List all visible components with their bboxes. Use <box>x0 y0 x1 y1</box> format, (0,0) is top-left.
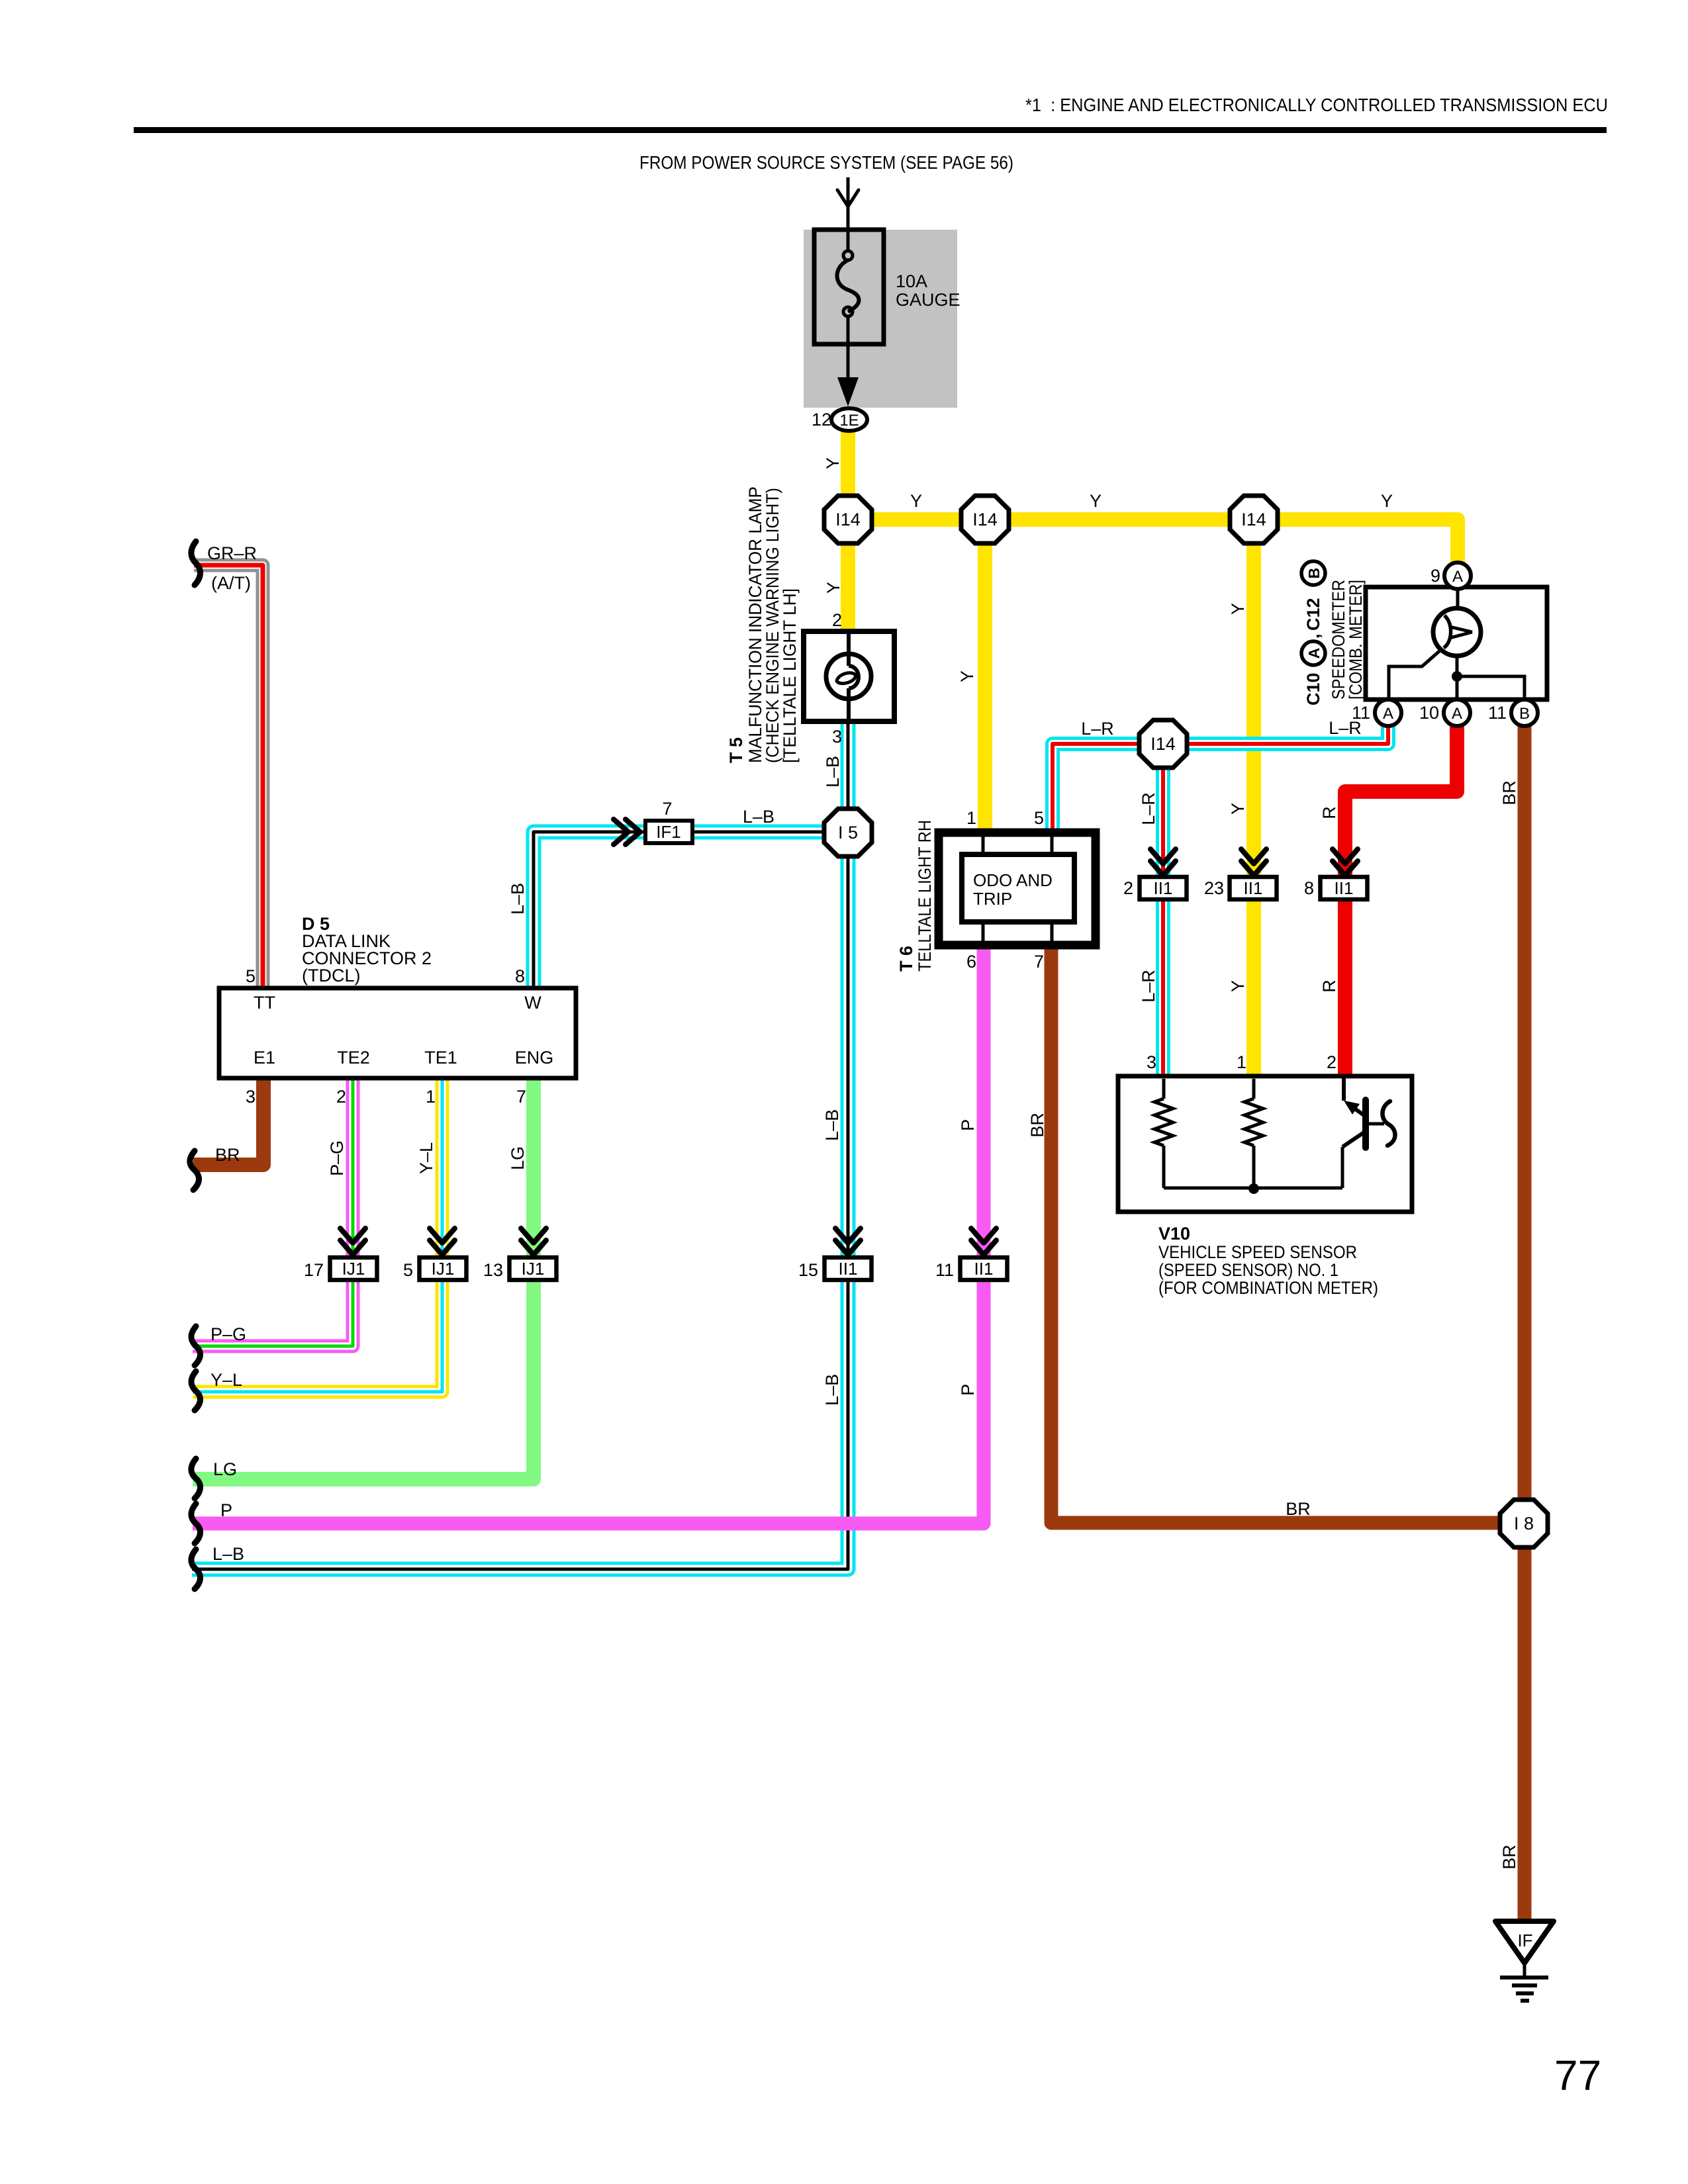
header rule <box>134 127 1607 133</box>
svg-text:A: A <box>1305 648 1323 659</box>
svg-text:[TELLTALE LIGHT LH]: [TELLTALE LIGHT LH] <box>780 588 800 763</box>
svg-text:L–B: L–B <box>508 883 528 915</box>
svg-text:II1: II1 <box>1154 878 1173 898</box>
svg-text:P–G: P–G <box>327 1140 347 1176</box>
svg-text:TRIP: TRIP <box>973 889 1012 909</box>
svg-text:10: 10 <box>1419 703 1439 723</box>
svg-text:5: 5 <box>403 1260 413 1280</box>
junction chevron II1-15 <box>835 1228 861 1243</box>
wire BR from speedometer pin B11 through I8 to ground IF <box>1518 721 1532 1923</box>
component speedometer comb meter box <box>1366 587 1547 700</box>
svg-text:1: 1 <box>426 1087 436 1107</box>
svg-text:Y: Y <box>1381 491 1393 511</box>
junction chevron IJ1-17 <box>340 1228 365 1243</box>
svg-text:I14: I14 <box>835 510 861 529</box>
svg-text:FROM POWER SOURCE SYSTEM (SEE: FROM POWER SOURCE SYSTEM (SEE PAGE 56) <box>639 152 1013 173</box>
brace LG <box>191 1459 201 1498</box>
component V10 vehicle speed sensor box <box>1118 1076 1412 1212</box>
fuse block shading <box>804 230 957 408</box>
svg-text:B: B <box>1305 568 1323 579</box>
svg-text:A: A <box>1383 705 1393 723</box>
svg-text:7: 7 <box>662 799 672 819</box>
resistor R1 <box>1154 1099 1173 1146</box>
svg-text:R: R <box>1319 979 1339 993</box>
wire BR from D5 pin E1 <box>193 1078 263 1165</box>
svg-text:I14: I14 <box>972 510 998 529</box>
wire Y branch I14 to T6 pin1 <box>978 520 992 833</box>
connector IF1 pin7 <box>645 821 692 843</box>
svg-text:A: A <box>1452 705 1462 723</box>
junction chevron II1-2 <box>1150 849 1176 864</box>
component T6 telltale light RH box <box>939 833 1096 945</box>
svg-text:Y: Y <box>1090 491 1102 511</box>
svg-text:II1: II1 <box>1244 878 1263 898</box>
svg-text:I 8: I 8 <box>1514 1514 1534 1533</box>
svg-text:GAUGE: GAUGE <box>896 290 961 310</box>
svg-text:3: 3 <box>1147 1052 1156 1072</box>
svg-text:1: 1 <box>966 808 976 828</box>
connector II1 pin23 <box>1230 877 1277 899</box>
svg-text:R: R <box>1319 806 1339 819</box>
wire L-R from T6 pin5 through I14 to speedometer pin A11 <box>1053 721 1388 835</box>
wire L-B from T5 pin3 through I5 and II1-15 to lower-left <box>192 719 848 1569</box>
svg-text:B: B <box>1519 705 1530 723</box>
svg-text:P: P <box>958 1384 978 1396</box>
transistor Q1 <box>1342 1076 1346 1101</box>
brace BR left <box>190 1151 199 1190</box>
svg-text:I14: I14 <box>1150 734 1176 754</box>
svg-text:3: 3 <box>246 1087 256 1107</box>
svg-text:23: 23 <box>1204 878 1224 898</box>
wire Y-L from D5 pin TE1 to IJ1-5 <box>193 1078 442 1392</box>
svg-text:IJ1: IJ1 <box>432 1259 455 1279</box>
svg-text:TE1: TE1 <box>424 1048 457 1068</box>
svg-text:10A: 10A <box>896 271 927 291</box>
svg-text:L–R: L–R <box>1139 970 1158 1003</box>
svg-text:11: 11 <box>935 1260 954 1280</box>
wire Y branch I14 to T5 lamp <box>841 520 855 631</box>
svg-text:11: 11 <box>1488 703 1507 723</box>
connector 1E pin 12 <box>831 408 867 431</box>
svg-text:L–R: L–R <box>1081 719 1114 739</box>
speedometer internal wiring <box>1456 589 1460 610</box>
brace P-G <box>191 1326 201 1365</box>
svg-text:(FOR COMBINATION METER): (FOR COMBINATION METER) <box>1158 1278 1378 1298</box>
pin A10 circle <box>1444 700 1470 726</box>
svg-text:LG: LG <box>508 1146 528 1170</box>
wire L-B from D5 pin8 through IF1 to I5 <box>534 832 848 988</box>
svg-text:IF1: IF1 <box>656 822 681 842</box>
wire P from T6 pin6 through II1-11 to lower-left <box>193 945 984 1524</box>
T6 internal pin lines <box>983 833 1052 945</box>
svg-text:V10: V10 <box>1158 1224 1190 1244</box>
connector IJ1 pin5 <box>420 1257 467 1280</box>
brace P <box>191 1504 201 1543</box>
svg-text:TELLTALE LIGHT RH: TELLTALE LIGHT RH <box>915 820 935 972</box>
svg-text:ENG: ENG <box>515 1048 554 1068</box>
connector IJ1 pin13 <box>510 1257 557 1280</box>
svg-text:5: 5 <box>1034 808 1044 828</box>
wire LG from D5 pin ENG to IJ1-13 <box>193 1078 534 1479</box>
wire Y branch I14 to V10 pin1 <box>1246 520 1261 1077</box>
svg-text:TT: TT <box>254 993 275 1013</box>
svg-text:P–G: P–G <box>211 1324 246 1344</box>
power feed wire <box>847 177 850 233</box>
svg-text:T 5: T 5 <box>726 737 746 763</box>
arrow into connector 1E <box>837 377 859 406</box>
svg-text:II1: II1 <box>1335 878 1354 898</box>
svg-text:ODO AND: ODO AND <box>973 870 1053 890</box>
V10 junction dot <box>1248 1183 1259 1194</box>
svg-text:IJ1: IJ1 <box>342 1259 365 1279</box>
brace GR-R <box>191 541 201 585</box>
svg-text:BR: BR <box>1286 1499 1311 1519</box>
svg-text:IF: IF <box>1517 1931 1532 1950</box>
svg-text:E1: E1 <box>254 1048 275 1068</box>
svg-text:TE2: TE2 <box>337 1048 370 1068</box>
T6 ODO AND TRIP box <box>962 854 1074 922</box>
svg-text:W: W <box>524 993 541 1013</box>
svg-text:13: 13 <box>483 1260 503 1280</box>
lamp bulb symbol <box>847 631 851 666</box>
svg-text:Y: Y <box>1228 603 1248 615</box>
svg-text:1: 1 <box>1237 1052 1246 1072</box>
svg-text:IJ1: IJ1 <box>522 1259 545 1279</box>
svg-text:L–B: L–B <box>823 756 843 788</box>
svg-text:9: 9 <box>1430 566 1440 586</box>
svg-text:*1 : ENGINE AND ELECTRONICALL: *1 : ENGINE AND ELECTRONICALLY CONTROLLE… <box>1025 95 1608 115</box>
svg-text:L–B: L–B <box>822 1374 842 1406</box>
svg-text:GR–R: GR–R <box>207 543 257 563</box>
connector II1 pin11 <box>961 1257 1008 1280</box>
svg-text:I 5: I 5 <box>838 823 858 842</box>
junction chevron IJ1-5 <box>430 1228 455 1243</box>
svg-text:1E: 1E <box>839 412 859 430</box>
pin A11 circle <box>1375 700 1401 726</box>
label C10 A C12 B <box>1301 561 1325 705</box>
splice I14 b <box>961 496 1009 543</box>
svg-text:[COMB. METER]: [COMB. METER] <box>1346 580 1366 700</box>
svg-text:11: 11 <box>1352 703 1370 723</box>
svg-text:C12: C12 <box>1303 598 1323 631</box>
resistor R2 <box>1244 1099 1263 1146</box>
svg-text:,: , <box>1303 633 1323 639</box>
fuse F1 10A GAUGE <box>814 230 884 344</box>
svg-text:T 6: T 6 <box>896 946 916 972</box>
connector II1 pin15 <box>825 1257 872 1280</box>
component T5 malfunction indicator lamp box <box>804 631 894 721</box>
svg-text:2: 2 <box>336 1087 346 1107</box>
junction chevron II1-8 <box>1333 849 1358 864</box>
splice I14 a <box>824 496 872 543</box>
svg-text:2: 2 <box>1327 1052 1336 1072</box>
brace Y-L <box>191 1371 201 1410</box>
brace L-B <box>191 1549 201 1589</box>
splice I14 d <box>1139 720 1187 768</box>
svg-text:15: 15 <box>798 1260 818 1280</box>
splice I5 <box>824 809 872 856</box>
svg-text:Y: Y <box>823 582 843 594</box>
power feed arrowhead <box>837 190 859 206</box>
wire Y from 1E to I14 bus and speedometer pin A9 <box>848 429 1458 564</box>
ground IF <box>1495 1921 1554 1963</box>
svg-text:C10: C10 <box>1303 672 1323 705</box>
pin B11 circle <box>1511 700 1538 726</box>
svg-text:II1: II1 <box>839 1259 858 1279</box>
svg-text:A: A <box>1452 568 1463 586</box>
svg-text:BR: BR <box>215 1145 240 1165</box>
svg-text:BR: BR <box>1027 1113 1047 1138</box>
svg-text:8: 8 <box>515 966 525 986</box>
svg-text:3: 3 <box>832 727 842 747</box>
svg-text:6: 6 <box>966 952 976 972</box>
svg-text:L–B: L–B <box>822 1109 842 1141</box>
svg-text:7: 7 <box>516 1087 526 1107</box>
connector II1 pin8 <box>1321 877 1368 899</box>
svg-text:12: 12 <box>812 410 831 430</box>
svg-text:Y: Y <box>823 457 843 469</box>
svg-text:2: 2 <box>1123 878 1133 898</box>
svg-text:(TDCL): (TDCL) <box>302 966 361 985</box>
splice I8 <box>1500 1500 1548 1547</box>
svg-text:II1: II1 <box>974 1259 994 1279</box>
svg-text:BR: BR <box>1499 780 1519 805</box>
wire GR-R from A/T to D5 pin5 <box>194 565 263 988</box>
svg-text:L–B: L–B <box>743 807 774 827</box>
wire L-R from I14 through II1-2 to V10 pin3 <box>1156 744 1170 1077</box>
svg-text:I14: I14 <box>1241 510 1266 529</box>
wire P-G from D5 pin TE2 to IJ1-17 <box>193 1078 353 1346</box>
svg-text:(A/T): (A/T) <box>211 573 251 593</box>
svg-text:P: P <box>220 1500 232 1520</box>
svg-text:Y: Y <box>1228 980 1248 992</box>
svg-text:Y–L: Y–L <box>211 1370 242 1390</box>
connector IJ1 pin17 <box>330 1257 377 1280</box>
svg-text:L–R: L–R <box>1139 792 1158 825</box>
svg-text:5: 5 <box>246 966 256 986</box>
svg-text:BR: BR <box>1499 1844 1519 1870</box>
wire R from speedometer pin A10 through II1-8 to V10 pin2 <box>1345 721 1457 1077</box>
pin A9 circle <box>1444 563 1471 589</box>
junction chevron II1-23 <box>1241 849 1266 864</box>
svg-text:L–B: L–B <box>212 1544 244 1564</box>
junction chevron II1-11 <box>971 1228 996 1243</box>
svg-text:P: P <box>958 1119 978 1131</box>
svg-text:2: 2 <box>832 610 842 630</box>
svg-text:Y–L: Y–L <box>416 1142 436 1174</box>
connector II1 pin2 <box>1140 877 1187 899</box>
svg-text:LG: LG <box>213 1459 237 1479</box>
svg-text:8: 8 <box>1304 878 1314 898</box>
splice I14 c <box>1230 496 1278 543</box>
svg-text:Y: Y <box>1228 803 1248 815</box>
svg-text:VEHICLE SPEED SENSOR: VEHICLE SPEED SENSOR <box>1158 1242 1357 1262</box>
svg-text:7: 7 <box>1034 952 1044 972</box>
speedometer dial symbol <box>1433 608 1481 656</box>
svg-text:77: 77 <box>1554 2052 1601 2099</box>
svg-text:17: 17 <box>304 1260 324 1280</box>
connector D5 DATA LINK CONNECTOR 2 <box>219 988 576 1078</box>
svg-text:Y: Y <box>910 491 922 511</box>
junction chevron IJ1-13 <box>521 1228 546 1243</box>
junction chevron on L-B at IF1 <box>614 819 628 844</box>
V10 internal bottom wire <box>1164 1079 1342 1189</box>
svg-text:Y: Y <box>957 670 977 682</box>
wire BR from T6 pin7 to I8 <box>1051 945 1524 1523</box>
svg-text:(SPEED SENSOR) NO. 1: (SPEED SENSOR) NO. 1 <box>1158 1260 1338 1280</box>
